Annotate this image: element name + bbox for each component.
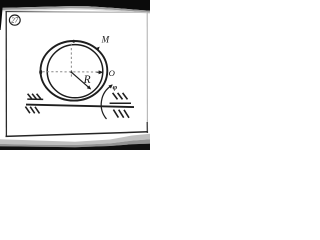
angle arc phi [101,85,112,119]
page background [0,0,150,150]
left scan black edge [0,0,3,30]
bottom scan black band [0,144,150,150]
svg-text:R: R [83,74,91,86]
top scan black bar [0,0,150,11]
ground line [26,105,134,108]
frame left line [5,11,7,136]
frame top line [6,11,148,14]
problem number badge circle 27 [9,15,20,25]
moment arrowhead on rim [96,47,100,52]
svg-text:O: O [109,68,115,78]
right upper hatch strokes [113,93,118,100]
inner hoop circle [47,45,103,98]
tick on top rim [72,40,75,43]
right lower hatch strokes [113,110,118,118]
horizontal dashed axis [43,71,99,73]
frame right line [146,13,148,133]
svg-text:27: 27 [11,17,18,24]
arc arrowhead [109,84,113,88]
svg-text:M: M [101,35,110,45]
vertical dashed axis [70,44,72,79]
bottom scan gray band [0,134,150,145]
right upper hatch baseline [110,102,131,104]
frame bottom line [6,132,148,137]
left upper hatch strokes [28,94,32,99]
axis arrow to O [97,71,101,73]
top bar soft gray edge [0,6,150,13]
tick on left rim [39,69,42,74]
svg-text:φ: φ [113,83,118,92]
outer hoop circle [41,41,108,101]
left upper hatch baseline [27,98,43,100]
radius arrow R [72,72,89,87]
center dot [70,71,72,73]
left lower hatch strokes [25,107,30,114]
